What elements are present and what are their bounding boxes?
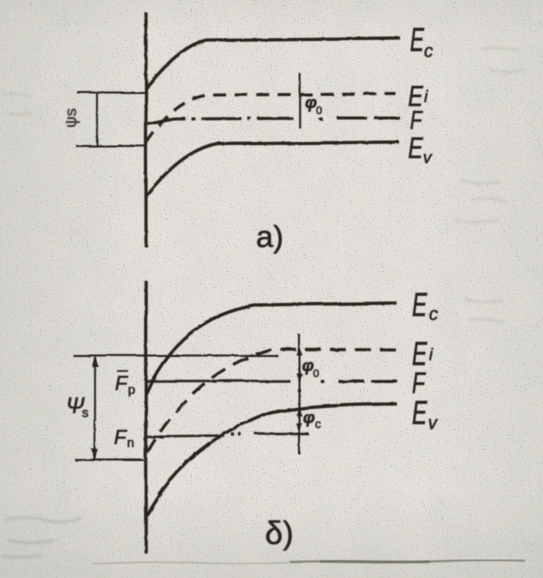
phi0 arrowhead up (fig b) [296, 347, 302, 355]
band edge Ev curve (fig b) [147, 404, 397, 515]
svg-text:φ: φ [303, 408, 315, 427]
svg-text:c: c [429, 304, 438, 324]
svg-text:v: v [428, 413, 438, 433]
svg-text:F: F [410, 105, 424, 135]
small dot under F (fig b) [297, 388, 300, 391]
svg-text:E: E [408, 132, 424, 165]
svg-text:F: F [115, 373, 129, 395]
svg-text:c: c [315, 417, 321, 431]
faint pencil rule at page bottom [92, 560, 525, 564]
svg-text:n: n [127, 435, 134, 450]
Ei bulk reference thin line (fig b) [79, 355, 278, 357]
quasi Fermi level Fn line (fig b) [146, 436, 225, 437]
phi0 marker line (fig a) [299, 73, 301, 128]
svg-text:E: E [412, 394, 428, 431]
svg-text:E: E [412, 286, 428, 323]
quasi Fermi level Fp line (fig b) [146, 380, 290, 382]
svg-text:E: E [410, 21, 425, 58]
phic arrowhead up (fig b) [296, 408, 302, 416]
arrowheads [92, 347, 302, 460]
svg-text:s: s [82, 405, 89, 420]
psi-s bracket ticks (fig a) [77, 92, 146, 94]
svg-text:c: c [424, 41, 433, 61]
svg-text:p: p [128, 382, 135, 397]
surface axis (vertical line, fig b) [144, 281, 147, 553]
psi-s arrow line (fig b) [94, 357, 96, 459]
svg-text:ψs: ψs [63, 108, 80, 127]
band edge Ec curve (fig b) [146, 304, 397, 395]
svg-text:0: 0 [316, 105, 322, 117]
FIGURE b) strokes [73, 281, 397, 553]
svg-text:δ): δ) [265, 515, 293, 551]
svg-text:0: 0 [313, 368, 319, 380]
Fermi level F dash-dot right (fig b) [338, 380, 397, 383]
band edge Ec curve (fig a) [146, 38, 400, 88]
intrinsic level Ei dashed (fig a) [146, 94, 396, 143]
intrinsic level Ei dashed curve (fig b) [147, 349, 397, 453]
phi0 arrowhead down (fig b) [296, 373, 302, 381]
surface axis (vertical line, fig a) [144, 12, 147, 247]
psi-s arrowhead down (fig b) [92, 449, 99, 460]
svg-text:a): a) [256, 219, 284, 254]
psi-s arrowhead up (fig b) [92, 356, 99, 367]
main diagram strokes [76, 12, 400, 247]
Fermi level F dash-dot (fig a) [146, 118, 293, 124]
band edge Ev curve (fig a) [146, 142, 399, 197]
phic arrowhead down (fig b) [296, 423, 302, 431]
svg-text:F: F [114, 427, 128, 449]
phi marker line (fig b) [298, 334, 300, 454]
psi-s bracket ticks (fig b) [73, 355, 146, 357]
